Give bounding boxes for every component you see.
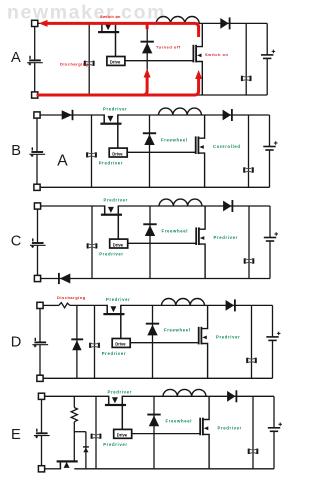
- battery VD: [32, 338, 48, 348]
- wire: E output cap top lead: [273, 396, 275, 428]
- wire: E input cap branch: [95, 396, 97, 469]
- wire: C battery top lead: [37, 209, 39, 242]
- svg-text:Predriver: Predriver: [102, 351, 126, 356]
- MOSFET Q1 A (main switch): [98, 23, 119, 33]
- wire: C drive output to Q2 gate: [128, 242, 197, 244]
- terminal square top-left E: [38, 393, 44, 399]
- capacitor Cin C: [87, 243, 98, 248]
- svg-text:Freewheel: Freewheel: [162, 229, 189, 234]
- diode D1 B (freewheeling, pointing up): [143, 132, 156, 145]
- wire: B Q1 gate to drive: [117, 114, 119, 148]
- wire: C Q2 source: [199, 244, 205, 278]
- load / capacitor B: [243, 167, 254, 172]
- diode D1 A (freewheeling, pointing up): [141, 41, 154, 54]
- terminal square bottom-left D: [37, 375, 43, 381]
- wire: C Q1 gate to drive: [117, 205, 119, 239]
- svg-text:Freewheel: Freewheel: [166, 419, 193, 424]
- load / capacitor A: [241, 76, 252, 81]
- terminal square top-left C: [34, 203, 40, 209]
- wire: D output cap bottom lead: [272, 340, 274, 378]
- load / capacitor C: [244, 258, 255, 263]
- inductor L1 D: [162, 298, 205, 305]
- wire: A drive output to Q2 gate: [125, 60, 193, 62]
- capacitor Cout B (polarized, + mark): [263, 141, 277, 150]
- svg-text:Predriver: Predriver: [216, 335, 240, 340]
- MOSFET Q1 E (main switch): [105, 396, 126, 406]
- diode D1 C (freewheeling, pointing up): [143, 223, 156, 236]
- inductor L1 B: [159, 108, 202, 115]
- wire: B battery bottom lead: [36, 155, 38, 185]
- MOSFET Q2 A (output switch): [193, 45, 202, 63]
- svg-text:Predriver: Predriver: [214, 235, 238, 240]
- svg-text:A: A: [11, 50, 21, 66]
- svg-text:Switch on: Switch on: [100, 14, 121, 19]
- wire: A load branch: [245, 23, 247, 95]
- capacitor Cin B: [86, 152, 97, 157]
- wire: A Q1 gate to drive: [115, 23, 117, 57]
- wire: A battery bottom lead: [34, 63, 36, 92]
- wire: B load branch: [248, 115, 250, 187]
- wire: D load branch: [251, 305, 253, 378]
- red current path: top rail with corner down to Q2 branch: [47, 23, 199, 37]
- wire: D top rail (fuse to MOSFET): [70, 304, 107, 306]
- svg-text:Drive: Drive: [110, 60, 121, 65]
- gate driver box U1 E: [114, 429, 132, 438]
- svg-text:Drive: Drive: [115, 342, 126, 347]
- svg-text:Freewheel: Freewheel: [161, 138, 188, 143]
- wire: D input cap branch: [94, 305, 96, 378]
- gate driver box U1 A: [107, 57, 125, 66]
- gate driver box U1 C: [110, 239, 128, 248]
- load / capacitor D: [246, 358, 257, 363]
- MOSFET Q1 B (main switch): [100, 114, 121, 124]
- wire: C output cap top lead: [269, 206, 271, 238]
- svg-text:Discharging: Discharging: [60, 62, 89, 67]
- diode D4 D (clamp, pointing up): [71, 338, 83, 350]
- wire: B battery top lead: [36, 118, 38, 151]
- wire: E load branch: [252, 396, 254, 469]
- terminal square top-left B: [34, 112, 40, 118]
- wire: D Q2 source: [201, 344, 207, 379]
- svg-text:B: B: [11, 143, 21, 159]
- MOSFET Q1 D (main switch): [103, 305, 124, 315]
- svg-text:D: D: [11, 334, 22, 350]
- wire: E bottom rail (transistor to right edge): [74, 468, 274, 470]
- gate driver box U1 D: [112, 339, 130, 348]
- capacitor Cout E (polarized, + mark): [268, 423, 282, 432]
- diode D2 C (output rectifier): [223, 200, 233, 212]
- wire: C top rail left: [41, 205, 105, 207]
- svg-text:Predriver: Predriver: [108, 390, 132, 395]
- svg-text:Drive: Drive: [117, 433, 128, 438]
- svg-text:A: A: [57, 152, 68, 169]
- diode D2 D (output rectifier): [226, 299, 236, 311]
- diode D2 A (output rectifier): [220, 17, 230, 29]
- wire: E bottom rail (terminal to transistor): [45, 468, 61, 470]
- wire: E battery top lead: [41, 399, 43, 432]
- wire: A top rail left: [38, 22, 102, 24]
- MOSFET Q2 D (output switch): [198, 327, 207, 345]
- svg-text:Turned off: Turned off: [156, 45, 181, 50]
- wire: B output cap top lead: [269, 115, 271, 147]
- wire: C top rail right: [118, 205, 270, 207]
- svg-text:Freewheel: Freewheel: [164, 328, 191, 333]
- wire: E top rail right: [122, 395, 274, 397]
- capacitor Cin A: [84, 61, 95, 66]
- wire: B input cap branch: [91, 115, 93, 187]
- wire: B top rail right: [118, 114, 270, 116]
- wire: B Q2 drain: [198, 115, 204, 138]
- wire: A battery top lead: [34, 27, 36, 60]
- gate driver box U1 B: [109, 148, 127, 157]
- svg-text:Predriver: Predriver: [99, 161, 123, 166]
- wire: B top rail left: [40, 114, 104, 116]
- svg-text:Predriver: Predriver: [218, 426, 242, 431]
- terminal square bottom-left E: [38, 466, 44, 472]
- wire: D bottom rail: [43, 377, 272, 379]
- MOSFET Q2 E (output switch): [199, 418, 208, 436]
- wire: E output cap bottom lead: [273, 431, 275, 469]
- svg-text:Predriver: Predriver: [103, 107, 127, 112]
- wire: A top rail right: [116, 22, 268, 24]
- svg-text:Drive: Drive: [112, 151, 123, 156]
- svg-text:C: C: [11, 234, 22, 250]
- wire: C Q2 drain: [199, 206, 205, 229]
- inductor L1 C: [159, 199, 202, 206]
- wire: E resistor bottom lead: [73, 422, 75, 461]
- diode D5 E (small, pointing up): [83, 446, 89, 452]
- fuse / thermistor squiggle on D top rail: [59, 303, 70, 308]
- capacitor Cin E: [91, 434, 102, 439]
- wire: A Q2 source: [196, 62, 202, 96]
- wire: D output cap top lead: [272, 305, 274, 337]
- wire: B output cap bottom lead: [269, 150, 271, 187]
- wire: E small diode branch: [85, 432, 87, 469]
- load / capacitor E: [248, 449, 259, 454]
- svg-text:E: E: [11, 427, 21, 443]
- inductor L1 A: [156, 16, 199, 23]
- terminal square bottom-left B: [34, 184, 40, 190]
- diode D3 C (bottom rail, pointing left): [58, 273, 70, 284]
- capacitor Cout C (polarized, + mark): [264, 232, 278, 241]
- wire: B bottom rail: [40, 186, 269, 188]
- wire: A bottom rail: [38, 94, 267, 96]
- wire: D battery bottom lead: [39, 345, 41, 375]
- wire: E Q2 drain: [203, 396, 209, 419]
- wire: D Q1 gate to drive: [120, 305, 122, 339]
- terminal square bottom-left A: [32, 92, 38, 98]
- red current path: freewheel branch upper segment: [146, 23, 149, 29]
- terminal square top-left D: [37, 302, 43, 308]
- transistor Q3 E (startup switch on bottom rail): [57, 460, 78, 469]
- wire: C input cap branch: [91, 206, 93, 279]
- wire: A output cap top lead: [266, 23, 268, 55]
- capacitor Cout A (polarized, + mark): [261, 50, 275, 59]
- inductor L1 E: [163, 389, 206, 396]
- svg-text:Discharging: Discharging: [57, 295, 86, 300]
- MOSFET Q2 B (output switch): [195, 136, 204, 154]
- capacitor Cin D: [89, 343, 100, 348]
- wire: D Q2 drain: [201, 305, 207, 328]
- wire: C load branch: [248, 206, 250, 279]
- diode D1 D (freewheeling, pointing up): [146, 323, 159, 336]
- wire: E freewheel branch: [153, 396, 155, 469]
- svg-text:Drive: Drive: [113, 242, 124, 247]
- red arrow left into input terminal: [39, 20, 48, 27]
- wire: B freewheel branch: [149, 115, 151, 187]
- wire: C bottom rail: [41, 278, 270, 280]
- wire: E resistor top lead: [73, 396, 75, 407]
- battery VB: [29, 147, 45, 157]
- svg-text:Predriver: Predriver: [99, 252, 123, 257]
- MOSFET Q1 C (main switch): [101, 205, 122, 215]
- wire: C battery bottom lead: [37, 246, 39, 276]
- wire: D top rail (terminal to fuse): [43, 304, 59, 306]
- wire: A freewheel branch: [146, 23, 148, 95]
- diode D1 E (freewheeling, pointing up): [147, 414, 160, 427]
- wire: B drive output to Q2 gate: [127, 151, 196, 153]
- MOSFET Q2 C (output switch): [195, 227, 204, 245]
- svg-text:Predriver: Predriver: [106, 297, 130, 302]
- terminal square bottom-left C: [34, 275, 40, 281]
- wire: E battery bottom lead: [41, 436, 43, 466]
- wire: E tap to diode branch: [74, 431, 86, 433]
- wire: D top rail right: [121, 304, 273, 306]
- wire: C output cap bottom lead: [269, 241, 271, 279]
- svg-text:Switch on: Switch on: [205, 52, 228, 57]
- red arrow up (freewheel branch): [144, 69, 151, 78]
- wire: E drive output to Q2 gate: [132, 433, 201, 435]
- red current path: bottom rail with corner up at Q2 branch: [37, 78, 199, 96]
- wire: C freewheel branch: [149, 206, 151, 279]
- wire: D battery top lead: [39, 309, 41, 342]
- svg-text:Controlled: Controlled: [213, 144, 241, 149]
- wire: E Q1 gate to drive: [121, 396, 123, 430]
- diode D2 E (output rectifier): [227, 390, 237, 402]
- wire: A input cap branch: [88, 23, 90, 95]
- wire: D clamp diode branch: [76, 305, 78, 378]
- battery VA: [27, 56, 43, 66]
- battery VC: [30, 238, 46, 248]
- wire: A Q2 drain: [196, 23, 202, 46]
- wire: E Q2 source: [203, 434, 209, 468]
- wire: D drive output to Q2 gate: [130, 342, 199, 344]
- diode D2 B (output rectifier): [223, 109, 233, 121]
- red current path: branch corner at freewheel diode: [143, 76, 147, 96]
- wire: B Q2 source: [198, 153, 204, 187]
- svg-text:Predriver: Predriver: [104, 198, 128, 203]
- terminal square top-left A: [32, 20, 38, 26]
- capacitor Cout D (polarized, + mark): [266, 332, 280, 341]
- battery VE: [34, 429, 50, 439]
- wire: E top rail left: [45, 395, 109, 397]
- resistor R1 E (startup): [71, 408, 77, 422]
- diode D3 B (input series diode on top rail): [62, 110, 74, 120]
- red arrow up (output MOSFET branch): [195, 70, 202, 79]
- wire: A output cap bottom lead: [266, 58, 268, 95]
- wire: D freewheel branch: [152, 305, 154, 378]
- svg-text:Predriver: Predriver: [103, 442, 127, 447]
